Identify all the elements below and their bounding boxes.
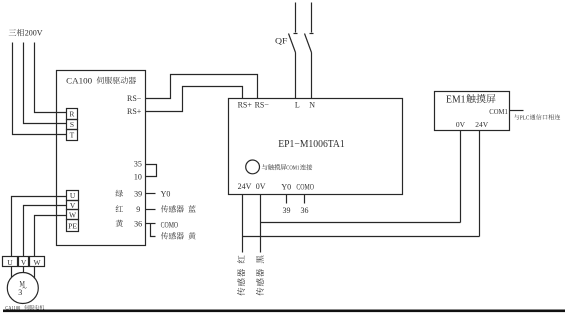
svg-text:35: 35: [134, 159, 142, 168]
svg-text:36: 36: [301, 206, 309, 215]
svg-text:V: V: [70, 201, 76, 210]
svg-text:L: L: [295, 100, 300, 109]
svg-text:COMO: COMO: [161, 220, 179, 229]
svg-text:EP1−M1006TA1: EP1−M1006TA1: [278, 139, 345, 150]
svg-text:39: 39: [134, 189, 142, 198]
svg-text:S: S: [70, 120, 74, 129]
svg-text:Y0: Y0: [161, 189, 171, 198]
svg-text:RS−: RS−: [255, 100, 270, 109]
svg-text:39: 39: [283, 206, 291, 215]
svg-text:EM1: EM1: [446, 94, 466, 105]
svg-text:COM1: COM1: [286, 165, 299, 172]
svg-text:U: U: [7, 258, 13, 267]
svg-text:T: T: [70, 131, 75, 140]
svg-text:W: W: [33, 258, 41, 267]
svg-text:Y0: Y0: [281, 182, 291, 191]
svg-text:0V: 0V: [256, 182, 266, 191]
svg-text:24V: 24V: [475, 120, 489, 129]
svg-text:V: V: [21, 258, 27, 267]
svg-text:200V: 200V: [25, 29, 43, 38]
svg-text:RS−: RS−: [127, 94, 142, 103]
svg-text:PE: PE: [68, 223, 77, 231]
svg-text:QF: QF: [275, 35, 288, 45]
svg-text:9: 9: [136, 205, 140, 214]
svg-text:RS+: RS+: [127, 107, 142, 116]
svg-text:PLC: PLC: [520, 115, 530, 121]
svg-text:24V: 24V: [238, 182, 252, 191]
svg-text:CA100: CA100: [66, 76, 92, 85]
svg-text:10: 10: [134, 173, 142, 182]
svg-text:0V: 0V: [456, 120, 466, 129]
svg-text:~: ~: [22, 283, 27, 292]
svg-text:W: W: [69, 210, 77, 219]
svg-text:U: U: [70, 191, 76, 200]
svg-text:R: R: [69, 110, 74, 119]
svg-text:COM1: COM1: [489, 107, 508, 116]
svg-text:COMO: COMO: [296, 182, 314, 191]
svg-text:RS+: RS+: [238, 100, 253, 109]
svg-text:36: 36: [134, 219, 142, 228]
svg-text:N: N: [309, 100, 315, 109]
